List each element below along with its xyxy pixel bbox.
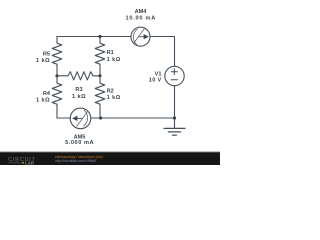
svg-text:V1: V1 <box>155 71 162 77</box>
svg-text:R4: R4 <box>43 91 51 97</box>
svg-text:10.00 mA: 10.00 mA <box>126 15 157 21</box>
svg-text:nttp://circuitlab.com/c/99ty5: nttp://circuitlab.com/c/99ty5 <box>55 159 96 163</box>
svg-text:1 kΩ: 1 kΩ <box>107 57 121 63</box>
svg-text:R2: R2 <box>107 88 114 94</box>
svg-text:1 kΩ: 1 kΩ <box>36 58 50 64</box>
svg-text:1 kΩ: 1 kΩ <box>107 95 121 101</box>
svg-text:R3: R3 <box>75 87 82 93</box>
svg-text:1 kΩ: 1 kΩ <box>36 97 50 103</box>
svg-text:R1: R1 <box>107 50 114 56</box>
svg-text:10 V: 10 V <box>149 78 162 84</box>
svg-text:R5: R5 <box>43 52 50 58</box>
svg-text:LAB: LAB <box>25 160 34 165</box>
svg-text:AM4: AM4 <box>135 9 148 15</box>
svg-text:5.000 mA: 5.000 mA <box>65 140 94 146</box>
svg-text:1 kΩ: 1 kΩ <box>72 94 86 100</box>
